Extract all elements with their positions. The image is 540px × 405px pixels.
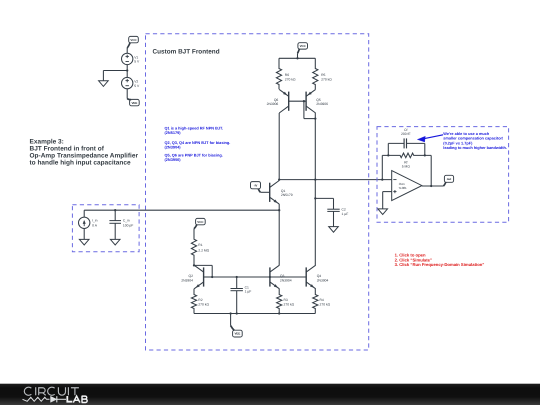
wire Q2 base-collector tie bbox=[194, 265, 212, 277]
transistor Q5 bbox=[306, 89, 316, 113]
wire input rail I_in to Q1 emitter bbox=[84, 209, 279, 211]
svg-text:200 fF: 200 fF bbox=[401, 132, 410, 136]
annotation blue note Q5 Q6 bbox=[165, 153, 223, 161]
label R3 270 k bbox=[284, 298, 295, 306]
svg-text:Q2, Q3, Q4 are NPN BJT for bia: Q2, Q3, Q4 are NPN BJT for biasing. bbox=[165, 141, 231, 145]
net flag VCC (top-left supply) bbox=[127, 36, 138, 48]
node C1 top junction bbox=[236, 276, 238, 278]
footer bar bbox=[0, 384, 540, 405]
node Q5 collector junction bbox=[314, 117, 316, 119]
node Q1 emitter junction bbox=[278, 209, 280, 211]
svg-text:C2: C2 bbox=[342, 207, 346, 211]
resistor R4 bbox=[313, 289, 318, 314]
svg-text:270 kΩ: 270 kΩ bbox=[285, 77, 296, 81]
wire Cf left drop bbox=[387, 143, 389, 155]
annotation Example 3 text bbox=[30, 139, 139, 167]
svg-text:2N3906: 2N3906 bbox=[267, 102, 279, 106]
wire I_in bottom bbox=[83, 229, 85, 240]
svg-text:270 kΩ: 270 kΩ bbox=[284, 302, 295, 306]
voltage source V1 bbox=[122, 53, 133, 64]
wire Q6 base to Q5 base bbox=[289, 100, 306, 102]
transistor Q1 bbox=[270, 181, 280, 205]
ground (C2) bbox=[329, 227, 339, 233]
wire C2 tap bbox=[315, 197, 333, 199]
svg-text:VEE: VEE bbox=[131, 101, 137, 105]
svg-text:270 kΩ: 270 kΩ bbox=[320, 302, 331, 306]
annotation red instructions bbox=[395, 252, 485, 267]
svg-text:5 V: 5 V bbox=[134, 84, 140, 88]
svg-text:Q1: Q1 bbox=[281, 189, 286, 193]
svg-text:2.2 MΩ: 2.2 MΩ bbox=[198, 248, 209, 252]
dashed box Custom BJT Frontend bbox=[146, 34, 369, 350]
wire top rail bbox=[279, 57, 315, 59]
resistor Rf bbox=[382, 153, 431, 158]
label Q4 2N3904 bbox=[317, 274, 329, 282]
label Q6 2N3906 bbox=[267, 98, 279, 106]
svg-text:2N3906: 2N3906 bbox=[316, 102, 328, 106]
svg-text:R1: R1 bbox=[198, 243, 202, 247]
label Cf 200 fF bbox=[401, 128, 410, 136]
svg-text:2N3904: 2N3904 bbox=[280, 278, 292, 282]
wire Q1 collector to op-amp input bbox=[279, 179, 392, 181]
resistor R1 bbox=[191, 229, 196, 266]
annotation blue note Q1 bbox=[165, 127, 224, 136]
label V2 5 V bbox=[134, 80, 140, 88]
ground (supply midpoint) bbox=[99, 81, 109, 87]
current source I_in bbox=[79, 217, 90, 228]
node Q5 base junction bbox=[303, 100, 305, 102]
svg-text:-IV: -IV bbox=[254, 183, 258, 187]
capacitor C_in bbox=[109, 210, 121, 239]
svg-text:1 µF: 1 µF bbox=[342, 212, 349, 216]
wire V1 to V2 bbox=[126, 65, 128, 78]
label C2 1 uF bbox=[342, 207, 349, 215]
wire VCC stub to top rail bbox=[297, 53, 299, 58]
svg-text:VCC: VCC bbox=[130, 38, 137, 42]
wire +input to ground bbox=[383, 192, 392, 209]
svg-text:VCC: VCC bbox=[300, 44, 307, 48]
svg-text:Q5, Q6 are PNP BJT for biasing: Q5, Q6 are PNP BJT for biasing. bbox=[165, 153, 223, 157]
wire feedback right rail bbox=[430, 155, 432, 186]
svg-text:Q1 is a high-speed RF NPN BJT.: Q1 is a high-speed RF NPN BJT. bbox=[165, 127, 224, 131]
wire to ground (supply midpoint) bbox=[103, 71, 127, 81]
voltage source V2 bbox=[122, 77, 133, 88]
wire Q5 collector down to Q4 collector bbox=[314, 113, 316, 265]
label OA1 TL081 bbox=[398, 182, 407, 190]
label Q5 2N3906 bbox=[316, 98, 328, 106]
transistor Q3 bbox=[270, 265, 280, 289]
transistor Q2 bbox=[194, 265, 204, 289]
ground (op-amp +input) bbox=[378, 209, 388, 215]
resistor R3 bbox=[277, 289, 282, 314]
node top rail junction bbox=[296, 57, 298, 59]
label C_in 100 pF bbox=[123, 219, 133, 228]
label R5 270 k bbox=[321, 73, 332, 81]
wire Q1 emitter column down to Q3 collector bbox=[278, 204, 280, 265]
wire VCC to V1 bbox=[126, 48, 128, 53]
svg-text:(2N5179): (2N5179) bbox=[165, 131, 182, 135]
svg-text:270 kΩ: 270 kΩ bbox=[321, 77, 332, 81]
wire feedback left rail bbox=[381, 155, 383, 179]
svg-text:0 A: 0 A bbox=[92, 223, 98, 227]
wire bottom rail bbox=[194, 313, 315, 315]
node feedback output junction bbox=[430, 185, 432, 187]
svg-text:2N5179: 2N5179 bbox=[281, 193, 293, 197]
node C_in top junction bbox=[114, 209, 116, 211]
node VEE tap junction bbox=[229, 312, 231, 314]
wire I_in top bbox=[83, 210, 85, 217]
ground (C_in) bbox=[110, 239, 120, 245]
annotation blue arrow to Cf bbox=[417, 135, 443, 142]
net flag -IV (input) bbox=[251, 182, 261, 193]
node C1 bottom junction bbox=[236, 312, 238, 314]
svg-text:VCC: VCC bbox=[197, 220, 204, 224]
svg-text:(2N3906): (2N3906) bbox=[165, 158, 182, 162]
wire Q2 collector tie bbox=[193, 264, 195, 266]
net flag VCC (frontend top) bbox=[298, 43, 308, 54]
net flag VEE (top-left supply) bbox=[127, 99, 139, 106]
svg-text:C1: C1 bbox=[245, 285, 249, 289]
svg-text:3. Click “Run Frequency-Domain: 3. Click “Run Frequency-Domain Simulatio… bbox=[395, 262, 485, 267]
node R3 bottom junction bbox=[278, 312, 280, 314]
resistor R6 bbox=[276, 58, 281, 89]
op-amp OA1 bbox=[392, 171, 422, 201]
label R2 270 k bbox=[198, 298, 209, 306]
wire op-amp output bbox=[422, 185, 444, 187]
label V1 5 V bbox=[134, 55, 140, 63]
net flag VCC (R1) bbox=[194, 218, 205, 228]
svg-text:smaller compensation capacitor: smaller compensation capacitor! bbox=[443, 137, 503, 141]
wire VEE stub bbox=[230, 314, 232, 326]
wire Q6 collector down to Q1 collector bbox=[278, 113, 280, 180]
resistor R5 bbox=[313, 58, 318, 89]
wire Q5 base-collector tie bbox=[304, 101, 315, 118]
net flag VEE (bottom) bbox=[231, 326, 243, 337]
svg-text:Example 3:: Example 3: bbox=[30, 139, 64, 146]
svg-text:We're able to use a much: We're able to use a much bbox=[443, 132, 490, 136]
ground (I_in) bbox=[79, 239, 89, 245]
annotation blue note Q2 Q3 Q4 bbox=[165, 141, 231, 149]
node Q1 collector junction bbox=[278, 178, 280, 180]
resistor R2 bbox=[191, 289, 196, 314]
label R6 270 k bbox=[285, 73, 296, 81]
wire V2 to VEE bbox=[126, 89, 128, 99]
svg-text:1 µF: 1 µF bbox=[245, 290, 252, 294]
label Q2 2N3904 bbox=[181, 274, 193, 282]
logo resistor-diode wire bbox=[23, 396, 67, 402]
node Cf-Rf right junction bbox=[424, 154, 426, 156]
transistor Q6 bbox=[279, 89, 289, 113]
svg-text:100 pF: 100 pF bbox=[123, 223, 133, 227]
svg-text:to handle high input capacitan: to handle high input capacitance bbox=[30, 160, 132, 167]
svg-text:(0.2pF vs 1.7pF): (0.2pF vs 1.7pF) bbox=[443, 141, 473, 145]
capacitor C2 bbox=[327, 198, 339, 226]
svg-text:(2N3904): (2N3904) bbox=[165, 145, 182, 149]
wire Cf right drop bbox=[424, 143, 426, 155]
svg-text:Custom BJT Frontend: Custom BJT Frontend bbox=[153, 48, 220, 55]
svg-text:270 kΩ: 270 kΩ bbox=[198, 302, 209, 306]
label I_in 0 A bbox=[92, 219, 98, 228]
node main wire x column R junction bbox=[314, 178, 316, 180]
dashed box op-amp stage bbox=[377, 127, 509, 223]
node junction between V1 and V2 bbox=[126, 69, 128, 71]
label R1 2.2 M bbox=[198, 243, 209, 252]
wire base rail bbox=[212, 276, 306, 278]
label R4 270 k bbox=[320, 298, 331, 306]
label C1 1 uF bbox=[245, 285, 252, 293]
logo LAB lettering bbox=[67, 396, 87, 403]
svg-text:TL081: TL081 bbox=[398, 186, 407, 190]
svg-text:Op-Amp Transimpedance Amplifie: Op-Amp Transimpedance Amplifier bbox=[30, 153, 139, 160]
node feedback input junction bbox=[381, 178, 383, 180]
annotation blue note compensation bbox=[443, 132, 507, 150]
dashed box input source bbox=[72, 205, 139, 252]
svg-text:leading to much higher bandwid: leading to much higher bandwidth. bbox=[443, 146, 507, 150]
label Q1 2N5179 bbox=[281, 189, 293, 197]
logo CIRCUIT lettering bbox=[24, 387, 79, 395]
wire -IV to Q1 base bbox=[260, 191, 269, 193]
node Q3 base junction bbox=[269, 276, 271, 278]
svg-text:2N3904: 2N3904 bbox=[181, 278, 193, 282]
svg-text:BJT Frontend in front of: BJT Frontend in front of bbox=[30, 146, 105, 153]
net flag out bbox=[444, 175, 454, 186]
svg-text:VEE: VEE bbox=[234, 332, 240, 336]
svg-text:5 MΩ: 5 MΩ bbox=[402, 164, 411, 168]
node R1-Q2 junction bbox=[193, 264, 195, 266]
label Q3 2N3904 bbox=[280, 274, 292, 282]
svg-text:out: out bbox=[447, 177, 452, 181]
transistor Q4 bbox=[306, 265, 316, 289]
node Cf-Rf left junction bbox=[387, 154, 389, 156]
capacitor Cf bbox=[388, 138, 425, 148]
svg-text:5 V: 5 V bbox=[134, 60, 140, 64]
label Rf 5 M bbox=[402, 160, 411, 168]
svg-text:C_in: C_in bbox=[123, 219, 130, 223]
title Custom BJT Frontend bbox=[153, 48, 220, 55]
node C2 tap junction bbox=[314, 197, 316, 199]
svg-text:2N3904: 2N3904 bbox=[317, 278, 329, 282]
svg-text:I_in: I_in bbox=[92, 219, 98, 223]
node Q2 base junction bbox=[211, 276, 213, 278]
capacitor C1 bbox=[231, 277, 243, 314]
